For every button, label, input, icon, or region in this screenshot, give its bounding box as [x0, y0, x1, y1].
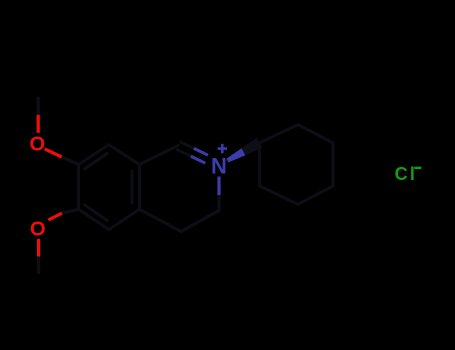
cyclohexyl ring bond P5-P6 — [260, 186, 298, 204]
aromatic inner line C8a-C4a — [131, 171, 134, 203]
bond O1-C7: dark carbon half — [62, 157, 79, 165]
wedge bond N2-Cs: blue nitrogen half — [226, 148, 245, 162]
double bond C1=N2 upper line: blue nitrogen half — [194, 148, 208, 155]
bond C8a-C1 — [140, 146, 179, 165]
svg-text:O: O — [30, 134, 46, 156]
cyclohexyl ring bond P3-P4 — [332, 143, 335, 186]
bond C8-C8a — [109, 145, 140, 165]
bond C3-C4 — [181, 211, 219, 232]
bond O1-CH3 top methyl: red oxygen half — [37, 115, 40, 133]
svg-text:N: N — [211, 154, 227, 179]
wire: benzene ring C-C bonds (carbon colored, near-black) — [79, 125, 334, 232]
svg-text:O: O — [30, 218, 46, 240]
charge minus on Cl — [414, 167, 421, 169]
bond O2-CH3 bottom methyl: red oxygen half — [37, 239, 40, 257]
bond C7-C8 — [79, 145, 109, 165]
double bond C1=N2 lower line: dark carbon half — [176, 149, 191, 156]
bond O2-C6: dark carbon half — [62, 209, 79, 213]
cyclohexyl ring bond P2-P3 — [298, 125, 333, 143]
svg-text:C: C — [395, 164, 408, 184]
bond O1-CH3 top methyl: dark carbon half — [37, 97, 40, 115]
bond O1-C7: red oxygen half — [45, 149, 62, 157]
bond O2-CH3 bottom methyl: dark carbon half — [37, 257, 40, 275]
cyclohexyl ring bond P6-Cs — [258, 143, 261, 186]
bond C4-C4a — [140, 209, 182, 231]
bond C6-C7 — [77, 165, 80, 210]
charge plus on N2 — [218, 144, 227, 153]
double bond C1=N2 upper line: dark carbon half — [180, 142, 194, 149]
bond O2-C6: red oxygen half — [48, 213, 62, 220]
double bond C1=N2 lower line: blue nitrogen half — [191, 156, 206, 163]
bond C4a-C5 — [109, 209, 140, 229]
aromatic inner line C7-C8 — [85, 153, 108, 169]
aromatic inner line C5-C6 — [85, 205, 108, 221]
bond N2-C3: dark carbon half — [217, 195, 220, 211]
cyclohexyl ring bond Cs-P2 — [260, 125, 298, 143]
svg-text:l: l — [410, 164, 415, 184]
wedge bond N2-Cs: dark carbon half — [242, 138, 263, 156]
cyclohexyl ring bond P4-P5 — [298, 186, 333, 204]
bond C5-C6 — [79, 209, 109, 229]
bond N2-C3: blue nitrogen half — [217, 177, 220, 196]
bond C8a-C4a — [138, 165, 141, 210]
